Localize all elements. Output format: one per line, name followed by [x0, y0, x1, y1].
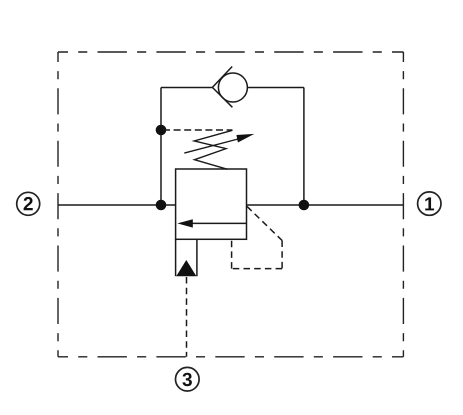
port 3 label circle [176, 367, 200, 391]
flow arrow inside valve body: shaft [191, 222, 247, 224]
envelope boundary: bottom edge (dash-dot) [58, 356, 403, 358]
valve stem left side line [175, 239, 177, 276]
port 1 label circle [418, 192, 441, 215]
wire: main line right segment (valve box to port 1) [247, 204, 404, 206]
junction dot C (right main line) [299, 200, 310, 211]
wire: left vertical branch [160, 88, 162, 206]
flow arrow inside valve body: head [177, 219, 192, 227]
junction dot A (pilot tap on left branch) [156, 125, 167, 136]
check valve CV1: seat line upper [212, 67, 232, 88]
wire: right vertical branch [303, 88, 305, 206]
valve stem right side line [196, 239, 198, 276]
solid pilot arrow (up triangle) [176, 260, 196, 276]
valve body box U1 [176, 169, 247, 239]
adjustment arrow head [236, 134, 254, 143]
port 2 label circle [17, 192, 40, 215]
pilot sense line (dashed) left vertical up to box bottom [231, 239, 233, 268]
port 3 number [182, 373, 191, 386]
pilot sense line (dashed) bottom horizontal [232, 268, 283, 270]
check valve CV1: seat line lower [212, 87, 232, 107]
port 2 number [24, 197, 33, 210]
pilot sense line (dashed) diagonal from main line junction [247, 206, 282, 240]
wire: top line left of check valve [161, 87, 212, 89]
spring (zigzag) [194, 130, 232, 169]
envelope boundary: top edge (dash-dot) [58, 51, 403, 53]
port 1 number [425, 197, 434, 210]
wire: main line left segment (port 2 to valve box) [58, 204, 176, 206]
envelope boundary: left edge (dash-dot) [57, 52, 59, 357]
pilot line (dashed) from dot A to spring top [163, 129, 232, 131]
envelope boundary: right edge (dash-dot) [402, 52, 404, 357]
adjustment arrow shaft through spring [184, 139, 240, 154]
pilot sense line (dashed) right vertical [281, 241, 283, 269]
junction dot B (left main line) [156, 200, 167, 211]
pilot drain line (dashed) to port 3 [186, 277, 188, 357]
check valve CV1: ball circle [218, 73, 247, 102]
wire: top line right of check valve [247, 87, 304, 89]
